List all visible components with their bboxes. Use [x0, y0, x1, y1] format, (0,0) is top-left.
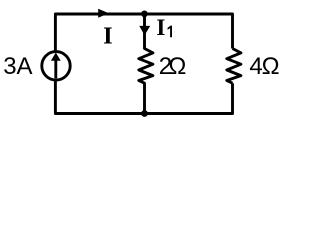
svg-text:4Ω: 4Ω [249, 53, 279, 80]
svg-text:I: I [156, 15, 165, 40]
svg-text:3A: 3A [3, 53, 32, 80]
svg-text:2Ω: 2Ω [159, 53, 187, 80]
svg-text:I: I [103, 23, 113, 50]
